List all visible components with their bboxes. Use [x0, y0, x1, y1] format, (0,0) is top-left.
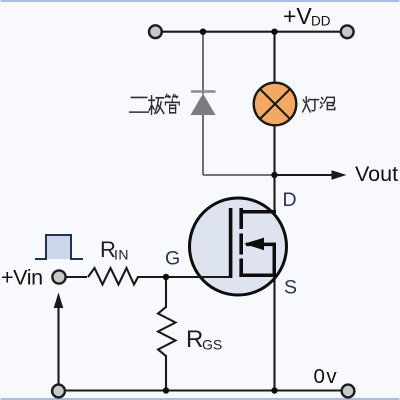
svg-text:G: G	[165, 248, 180, 270]
svg-text:DD: DD	[311, 14, 331, 29]
svg-text:+V: +V	[283, 3, 312, 29]
svg-text:0v: 0v	[314, 365, 339, 388]
svg-text:D: D	[283, 189, 297, 211]
svg-text:Vout: Vout	[355, 162, 398, 186]
svg-text:S: S	[284, 277, 297, 299]
svg-text:R: R	[186, 326, 203, 353]
svg-text:+Vin: +Vin	[1, 266, 43, 290]
svg-text:GS: GS	[202, 337, 222, 353]
svg-text:IN: IN	[114, 247, 129, 263]
